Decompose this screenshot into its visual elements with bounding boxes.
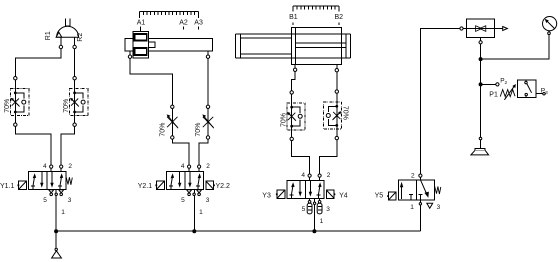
svg-text:4: 4 bbox=[43, 163, 47, 170]
svg-text:1: 1 bbox=[199, 209, 203, 216]
svg-text:1: 1 bbox=[410, 204, 414, 211]
svg-text:Y2.2: Y2.2 bbox=[216, 183, 231, 190]
svg-text:70%: 70% bbox=[280, 113, 287, 127]
svg-text:3: 3 bbox=[437, 204, 441, 211]
svg-text:70%: 70% bbox=[195, 123, 202, 137]
svg-text:4: 4 bbox=[181, 163, 185, 170]
svg-text:P3: P3 bbox=[541, 87, 548, 96]
svg-text:2: 2 bbox=[68, 163, 72, 170]
svg-text:5: 5 bbox=[43, 197, 47, 204]
svg-text:70%: 70% bbox=[63, 99, 70, 113]
svg-text:Y2.1: Y2.1 bbox=[138, 183, 153, 190]
svg-text:Y1.1: Y1.1 bbox=[0, 183, 15, 190]
svg-text:70%: 70% bbox=[342, 106, 349, 120]
svg-text:70%: 70% bbox=[4, 99, 11, 113]
svg-text:Y4: Y4 bbox=[339, 193, 348, 200]
svg-text:2: 2 bbox=[327, 172, 331, 179]
svg-text:2: 2 bbox=[206, 163, 210, 170]
svg-text:P1: P1 bbox=[489, 91, 498, 98]
svg-text:B1: B1 bbox=[289, 14, 298, 21]
svg-text:2: 2 bbox=[411, 173, 415, 180]
svg-text:A3: A3 bbox=[194, 20, 203, 27]
svg-text:70%: 70% bbox=[160, 123, 167, 137]
svg-text:3: 3 bbox=[326, 206, 330, 213]
svg-text:Y3: Y3 bbox=[262, 192, 271, 199]
svg-text:3: 3 bbox=[206, 197, 210, 204]
svg-text:5: 5 bbox=[302, 206, 306, 213]
svg-text:R2: R2 bbox=[77, 33, 84, 42]
svg-text:R1: R1 bbox=[45, 31, 52, 40]
svg-text:A1: A1 bbox=[137, 20, 146, 27]
svg-text:3: 3 bbox=[68, 197, 72, 204]
svg-text:P2: P2 bbox=[500, 77, 507, 86]
svg-text:B2: B2 bbox=[335, 14, 344, 21]
svg-text:Y5: Y5 bbox=[375, 193, 384, 200]
svg-text:5: 5 bbox=[181, 197, 185, 204]
svg-text:1: 1 bbox=[320, 218, 324, 225]
svg-text:1: 1 bbox=[61, 209, 65, 216]
svg-text:4: 4 bbox=[301, 172, 305, 179]
svg-text:A2: A2 bbox=[179, 20, 188, 27]
